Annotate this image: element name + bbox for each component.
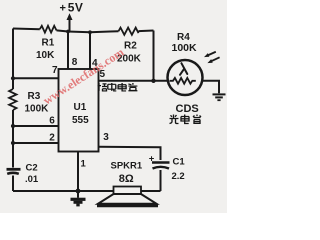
wire top rail left segment: [13, 28, 40, 31]
node dot pin5 junction: [151, 79, 155, 83]
speaker SPKR1 body: [114, 187, 142, 195]
wire pin7: [13, 77, 59, 79]
wire photocell to ground: [203, 81, 220, 94]
wire left vertical lower: [12, 110, 14, 168]
wire top rail middle segment: [57, 30, 119, 32]
svg-text:R1: R1: [42, 38, 55, 49]
node dot pin1 ground: [76, 189, 81, 194]
resistor R3: [9, 89, 16, 110]
svg-text:C2: C2: [26, 163, 38, 174]
wire top rail right segment: [139, 30, 154, 33]
light arrow 1: [208, 52, 216, 56]
wire pin6: [13, 125, 59, 127]
svg-text:2: 2: [49, 133, 55, 144]
svg-text:+: +: [60, 3, 66, 15]
node dot pin8 top: [66, 30, 70, 34]
svg-text:+: +: [149, 154, 155, 165]
resistor R1: [40, 26, 57, 33]
chinese label 光电管 (photocell): [170, 115, 202, 124]
wire R2 branch down to pin5: [153, 31, 155, 81]
svg-text:555: 555: [72, 115, 89, 126]
node dot pin6: [11, 124, 15, 128]
svg-text:2.2: 2.2: [172, 171, 185, 182]
ground center: [77, 191, 79, 198]
light arrow 2: [211, 57, 220, 61]
svg-text:6: 6: [49, 116, 55, 127]
svg-text:5V: 5V: [68, 1, 83, 15]
svg-text:7: 7: [52, 65, 58, 76]
chinese label 控制电压 (control voltage): [98, 83, 138, 91]
svg-text:8Ω: 8Ω: [119, 173, 134, 185]
wire pin3 to C1: [99, 147, 161, 160]
svg-text:R2: R2: [124, 41, 137, 52]
svg-text:SPKR1: SPKR1: [111, 161, 143, 172]
wire pin4 drop: [89, 32, 91, 69]
photocell lambda symbol: [180, 63, 187, 75]
resistor R2: [119, 28, 139, 35]
photocell internal resistor: [170, 78, 196, 84]
wire pin8 drop: [67, 32, 69, 70]
svg-text:100K: 100K: [172, 42, 198, 54]
wire bottom rail: [13, 190, 161, 192]
wire pin2: [13, 142, 59, 144]
svg-text:C1: C1: [173, 157, 186, 168]
svg-text:U1: U1: [74, 102, 87, 113]
svg-text:R3: R3: [28, 91, 41, 102]
capacitor C2: [7, 168, 21, 171]
svg-text:8: 8: [72, 57, 78, 68]
wire left vertical upper: [12, 29, 14, 90]
node dot pin2: [11, 141, 15, 145]
speaker SPKR1 cone: [98, 194, 157, 204]
op-amp U1 555 box: [59, 69, 99, 152]
wire pin5: [99, 80, 168, 82]
svg-text:3: 3: [103, 132, 109, 143]
ground right: [213, 93, 226, 95]
svg-text:10K: 10K: [36, 50, 55, 61]
wire C1 to bottom rail: [160, 170, 162, 191]
svg-text:1: 1: [81, 159, 87, 170]
node dot pin4 top: [88, 30, 92, 34]
svg-text:CDS: CDS: [176, 103, 199, 115]
capacitor C1: [152, 161, 170, 164]
node dot pin7: [11, 76, 15, 80]
photocell R4 CDS circle: [168, 60, 203, 95]
svg-text:.01: .01: [25, 174, 39, 185]
wire pin1: [77, 152, 79, 192]
wire C2 to bottom rail: [12, 176, 14, 192]
+5V supply arrow: [69, 19, 71, 32]
